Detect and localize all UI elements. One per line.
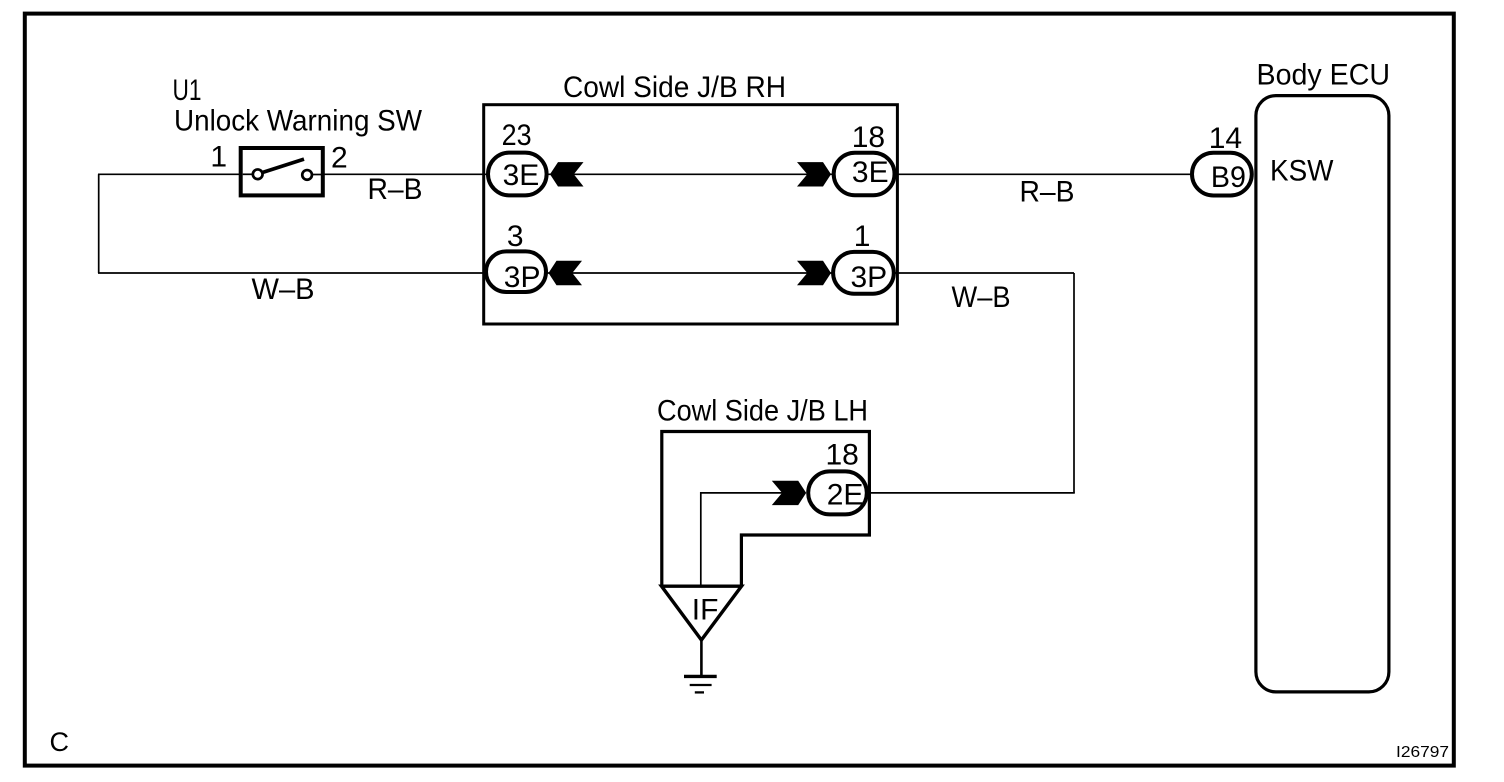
svg-text:R–B: R–B — [1020, 176, 1075, 209]
connector 3E (right, pin 18) oval — [834, 153, 895, 196]
svg-text:3E: 3E — [852, 156, 889, 189]
svg-text:B9: B9 — [1211, 161, 1246, 194]
svg-text:R–B: R–B — [368, 173, 423, 206]
svg-text:14: 14 — [1209, 122, 1242, 155]
arrow into left 3P (pointing left) — [549, 261, 583, 285]
arrow into left 3E (female connector marker, pointing left) — [550, 162, 584, 186]
svg-text:2: 2 — [331, 142, 348, 175]
svg-text:IF: IF — [692, 593, 719, 626]
wire: W-B horizontal segment into 2E connector — [868, 492, 1075, 494]
svg-text:23: 23 — [502, 119, 532, 152]
svg-text:I26797: I26797 — [1396, 744, 1449, 761]
svg-text:1: 1 — [854, 220, 871, 253]
ground symbol — [684, 640, 717, 692]
arrow into right 3P (pointing right) — [797, 261, 831, 285]
svg-text:W–B: W–B — [252, 273, 315, 306]
wire: R-B horizontal run from left vertical through U1 to J/B RH 3E and on to B9 — [98, 173, 1191, 175]
ground triangle IF — [662, 586, 742, 640]
connector 3E (left, pin 23) oval — [488, 153, 547, 196]
wire: internal J/B LH wire from 2E arrow to IF ground triangle — [701, 493, 790, 586]
arrow into right 3E (pointing right) — [797, 162, 831, 186]
connector 2E (pin 18) oval — [808, 471, 867, 514]
wire: W-B horizontal run from left vertical through J/B RH 3P to right corner — [98, 272, 1074, 274]
switch terminal circle pin 1 — [253, 169, 263, 179]
arrow into 2E (pointing right) — [772, 481, 806, 505]
ECU: Body ECU outline — [1256, 96, 1389, 692]
svg-text:18: 18 — [852, 121, 885, 154]
wire: R-B net, left vertical segment joining switch pin1 row to W-B return row — [98, 174, 100, 273]
switch terminal circle pin 2 — [302, 170, 312, 180]
svg-text:1: 1 — [210, 141, 227, 174]
connector 3P (left, pin 3) oval — [486, 251, 546, 292]
connector B9 (pin 14) oval — [1192, 153, 1252, 196]
junction block Cowl Side J/B RH outline — [484, 105, 898, 324]
svg-text:3P: 3P — [504, 261, 541, 294]
svg-text:Body ECU: Body ECU — [1257, 59, 1391, 92]
junction block Cowl Side J/B LH outline (open-bottom shape) — [662, 432, 870, 587]
switch U1 Unlock Warning SW — [241, 148, 323, 195]
svg-text:2E: 2E — [827, 479, 864, 512]
svg-text:3P: 3P — [851, 261, 888, 294]
svg-text:18: 18 — [826, 439, 859, 472]
svg-text:C: C — [50, 727, 70, 757]
svg-text:W–B: W–B — [952, 281, 1011, 314]
svg-text:U1: U1 — [173, 74, 202, 107]
svg-text:Unlock Warning SW: Unlock Warning SW — [174, 105, 423, 138]
connector 3P (right, pin 1) oval — [833, 252, 894, 294]
svg-text:Cowl Side J/B RH: Cowl Side J/B RH — [563, 71, 786, 104]
svg-text:3E: 3E — [503, 159, 540, 192]
svg-text:KSW: KSW — [1270, 155, 1334, 188]
switch blade (open contact) — [263, 159, 304, 172]
svg-text:Cowl Side J/B LH: Cowl Side J/B LH — [657, 395, 868, 428]
wire: W-B vertical segment down to Cowl Side J/B LH row — [1073, 273, 1075, 493]
svg-text:3: 3 — [507, 220, 524, 253]
